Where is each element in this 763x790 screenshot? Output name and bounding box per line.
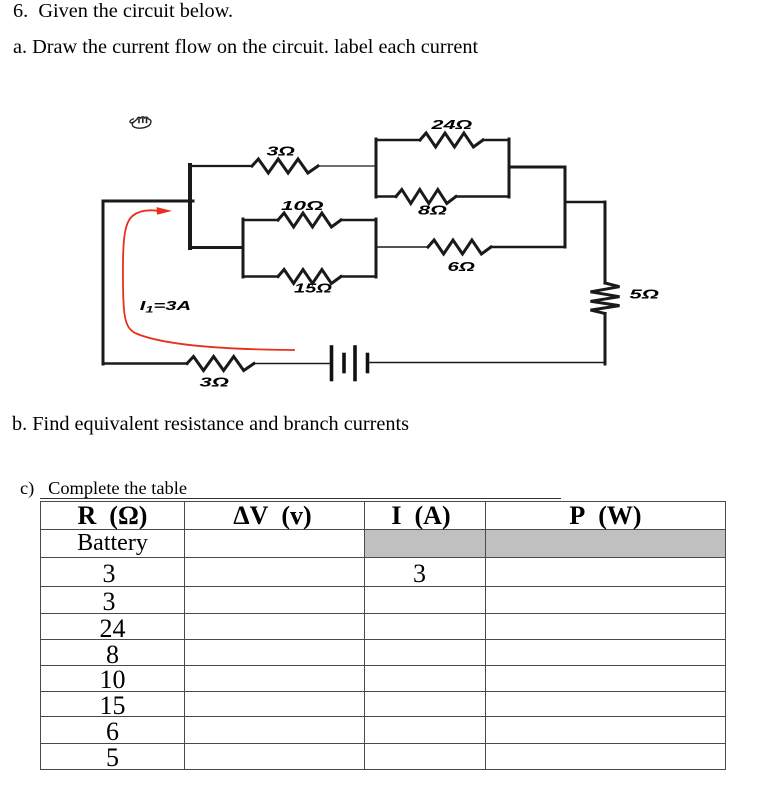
svg-text:10Ω: 10Ω xyxy=(281,199,324,213)
svg-text:5Ω: 5Ω xyxy=(630,287,659,301)
svg-text:I1=3A: I1=3A xyxy=(140,299,191,315)
svg-text:8Ω: 8Ω xyxy=(418,203,447,217)
svg-text:3Ω: 3Ω xyxy=(267,144,296,158)
svg-text:3Ω: 3Ω xyxy=(200,375,229,389)
svg-text:6Ω: 6Ω xyxy=(448,260,475,274)
svg-text:24Ω: 24Ω xyxy=(430,118,472,132)
